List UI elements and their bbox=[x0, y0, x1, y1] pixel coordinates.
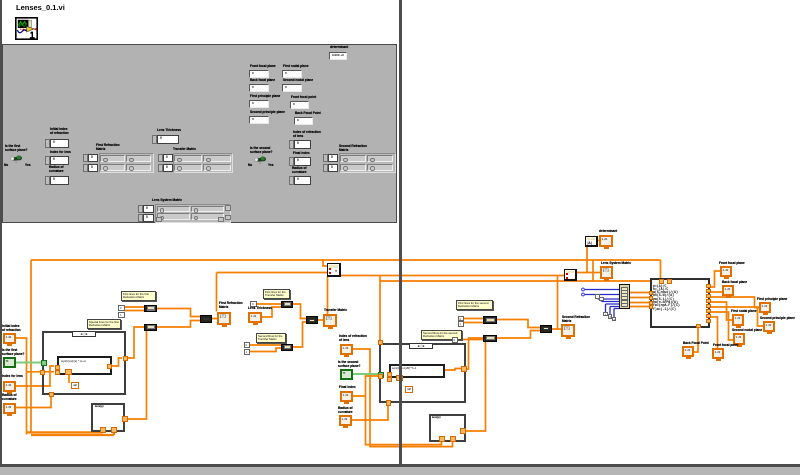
comment: Special lines for the first Refraction Matrix bbox=[87, 319, 121, 329]
wire: main system-matrix trunk (top long run) bbox=[31, 260, 661, 279]
wire: build-array T2 to mid node bbox=[293, 322, 306, 347]
panel control: First Refraction Matrix bbox=[96, 143, 120, 152]
multiply node L bbox=[200, 315, 212, 323]
big build array node bbox=[619, 284, 630, 309]
terminal: determinant bbox=[599, 229, 617, 233]
window chrome: left border bbox=[0, 0, 2, 466]
panel indicator: Second principle plane bbox=[250, 110, 285, 114]
wire: boolean second-surface to case 3 selector bbox=[353, 373, 379, 375]
case structure 1 bbox=[42, 331, 126, 395]
wire: case1 output up to build-array L2 bbox=[126, 327, 144, 358]
case 3 inner tunnels bbox=[378, 374, 383, 379]
case structure 4: lens(p) right bbox=[429, 414, 466, 442]
wire: build-array R2 to A|B3 bbox=[497, 331, 540, 339]
lens(p) right tunnel bbox=[460, 428, 466, 434]
panel indicator: Back focal plane bbox=[250, 78, 275, 82]
build array L1 bbox=[144, 305, 157, 312]
comment: First lines for the Transfer Matrix bbox=[263, 289, 290, 299]
terminal: Index for lens bbox=[2, 374, 23, 378]
terminal: First Refraction Matrix bbox=[219, 301, 243, 309]
case 1 selector label bbox=[72, 331, 96, 338]
panel control: Second Refraction Matrix bbox=[339, 144, 367, 153]
lens(p) left bottom terminals bbox=[100, 427, 106, 433]
wire: A|B3 to second refraction matrix terminal bbox=[552, 328, 562, 330]
panel control: Transfer Matrix bbox=[173, 147, 196, 151]
build array L2 bbox=[144, 324, 157, 331]
build array T2 bbox=[281, 344, 293, 351]
case structure 3 bbox=[379, 343, 466, 403]
panel indicator: Front focal plane bbox=[250, 64, 276, 68]
blue constants near build array bbox=[595, 294, 600, 299]
wire: build-array T1 to mid node bbox=[293, 304, 306, 319]
wire: second surface boolean run: index-of-refraction terminal to bottom bbox=[353, 349, 453, 447]
terminal: Back focal plane bbox=[722, 280, 747, 284]
comment: First lines for the first Refraction Matrix bbox=[121, 291, 156, 301]
panel indicator: Front focal point bbox=[291, 95, 316, 99]
constants: transfer row 2 bbox=[244, 342, 251, 348]
terminal: Is the second surface plane? bbox=[338, 360, 361, 368]
wire: index for lens into case 1 bbox=[16, 366, 54, 386]
wire: multiply1 output to multiply2 bbox=[340, 275, 564, 277]
panel indicator: Lens System Matrix bbox=[152, 198, 182, 202]
terminal: Radius of curvature (first) bbox=[2, 393, 17, 401]
comment: Second Row for the second Refraction Matrix bbox=[421, 330, 462, 340]
wire: big build array to formula node inputs bbox=[629, 293, 649, 307]
wire: branch up to determinant node bbox=[586, 245, 588, 273]
panel indicator: First principle plane bbox=[250, 94, 280, 98]
terminal: First nodal plane bbox=[731, 309, 757, 313]
wire: constants into build-array L1 bbox=[124, 307, 144, 311]
constants: second refraction rows bbox=[458, 316, 465, 322]
title: VI name bbox=[16, 3, 65, 12]
panel control: Index of refraction of lens bbox=[293, 130, 321, 139]
panel control: Is the first surface plane? toggle bbox=[5, 144, 28, 153]
terminal: Second Refraction Matrix bbox=[562, 315, 590, 323]
wire: initial index terminal to bottom bus bbox=[16, 338, 27, 435]
terminal: Lens Thickness bbox=[248, 306, 272, 310]
wire: determinant node to indicator bbox=[597, 240, 599, 242]
terminal: Second principle plane bbox=[760, 316, 795, 320]
multiply node 2 (A x B) bbox=[564, 269, 577, 281]
case 1 selector terminal bbox=[41, 360, 47, 366]
panel control: Is the second surface plane? toggle bbox=[250, 146, 273, 155]
formula node tunnels bbox=[659, 279, 664, 285]
terminal: Front focal plane bbox=[719, 261, 745, 265]
constant: 0 above lens thickness bbox=[250, 301, 257, 307]
wire: right lens(p) output up to build-array R2 bbox=[465, 340, 486, 431]
lens(p) left right tunnel bbox=[122, 416, 128, 422]
wire: constants into build-array T2 bbox=[250, 345, 281, 352]
lens(p) right bottom terminals bbox=[439, 436, 445, 442]
wire: build-array L1 into multiply node L bbox=[157, 309, 200, 317]
case 3 selector terminal bbox=[378, 372, 384, 378]
terminal: Initial index of refraction bbox=[2, 324, 21, 332]
terminal: First principle plane bbox=[757, 297, 787, 301]
terminal: Lens System Matrix bbox=[601, 261, 631, 265]
build array T mid bbox=[306, 316, 318, 324]
wire: branch down to case 3 and right to formula node bbox=[380, 276, 667, 342]
comment: Second Row for the Transfer Matrix bbox=[256, 333, 286, 343]
panel control: Lens Thickness bbox=[157, 128, 181, 132]
wire: lens thickness terminal into build-array T1 bbox=[262, 307, 281, 317]
formula node bbox=[650, 278, 710, 328]
panel control: Index for lens bbox=[50, 150, 71, 154]
wire: boolean first-surface to case 1 selector bbox=[16, 362, 42, 364]
wire: radius2 into case 3 bottom tunnel bbox=[352, 369, 461, 421]
wire: trunk drop at formula node bbox=[592, 260, 594, 281]
wire: mid node to transfer matrix terminal bbox=[318, 319, 324, 321]
wire: constants into build-array R1 bbox=[464, 319, 483, 323]
comment: First lines for the second Refraction Matrix bbox=[456, 300, 493, 310]
terminal: Is the first surface plane? (boolean) bbox=[2, 348, 25, 356]
wire: transfer matrix up to multiply node 1 bbox=[327, 277, 329, 315]
wire: bottom double bus into left lens(p) terminals bbox=[27, 429, 115, 435]
case 1 inner tunnels bbox=[55, 365, 60, 370]
wire: radius of curvature into case 1 bottom tunnel bbox=[16, 358, 122, 408]
wire: blue integer bundle into big build array bbox=[585, 290, 619, 295]
wire: formula outputs to indicators bbox=[710, 271, 720, 287]
front panel background bbox=[2, 44, 397, 223]
determinant node bbox=[585, 236, 598, 247]
terminal: Back Focal Point bbox=[683, 341, 709, 345]
wire: lens-thickness constant into build-array T1 bbox=[257, 303, 282, 305]
panel indicator: Back Focal Point bbox=[295, 111, 321, 115]
wire: build-array R1 to A|B3 bbox=[497, 320, 540, 328]
wire: multiply2 to lens system matrix terminal bbox=[577, 272, 600, 274]
wire: final index terminal branches bbox=[353, 376, 442, 445]
window chrome: bottom bar bbox=[0, 464, 800, 466]
wire: left lens(p) output up to build-array L2 bbox=[128, 331, 147, 419]
blue wire input dots bbox=[582, 288, 585, 296]
wire: constant into build-array R2 bbox=[458, 339, 483, 341]
build array R1 bbox=[483, 316, 497, 324]
panel indicator: determinant bbox=[330, 45, 348, 49]
constants: first refraction rows bbox=[118, 305, 125, 311]
panel control: Radius of curvature (first) bbox=[49, 165, 64, 174]
build array R2 bbox=[483, 335, 497, 343]
case 3 inner formula box bbox=[389, 364, 445, 378]
case structure 2: lens(p) left bbox=[91, 403, 125, 432]
window chrome: center divider bbox=[399, 0, 401, 466]
terminal: Radius of curvature (second) bbox=[338, 406, 353, 414]
panel indicator: First nodal plane bbox=[283, 64, 309, 68]
panel control: Final index bbox=[293, 151, 310, 155]
wire: trunk tap into multiply node 1 bbox=[323, 260, 327, 266]
terminal: Front focal point bbox=[713, 343, 738, 347]
wire: multiply1 output lower branch to A|B3 bbox=[557, 276, 559, 331]
VI icon bbox=[15, 17, 38, 40]
multiply node 1 (A x B) bbox=[327, 263, 341, 277]
terminal: Transfer Matrix bbox=[324, 308, 347, 312]
panel control: Initial index of refraction bbox=[50, 127, 69, 136]
case 1 inner formula box bbox=[57, 356, 112, 375]
case 1 border tunnels bbox=[123, 356, 129, 362]
panel indicator: Second nodal plane bbox=[283, 78, 313, 82]
wire: build-array L2 into multiply node L bbox=[157, 321, 200, 328]
terminal: Index of refraction of lens bbox=[339, 334, 367, 342]
terminal: Second nodal plane bbox=[732, 328, 762, 332]
case 3 x2 constant bbox=[405, 386, 413, 393]
wire: multiply node L output to first refraction matrix terminal bbox=[212, 273, 327, 319]
wire: case3 output up to build-array R2 bbox=[466, 338, 483, 369]
terminal: Final index bbox=[339, 385, 356, 389]
case 3 border tunnels bbox=[378, 340, 384, 346]
panel control: Radius of curvature (second) bbox=[292, 166, 307, 175]
multiply node 3 bbox=[540, 325, 552, 333]
wire: trunk left vertical down to bottom bus bbox=[30, 260, 32, 433]
build array T1 bbox=[281, 301, 293, 308]
case 3 selector label bbox=[409, 343, 433, 350]
case 1 x2 constant bbox=[71, 382, 79, 389]
